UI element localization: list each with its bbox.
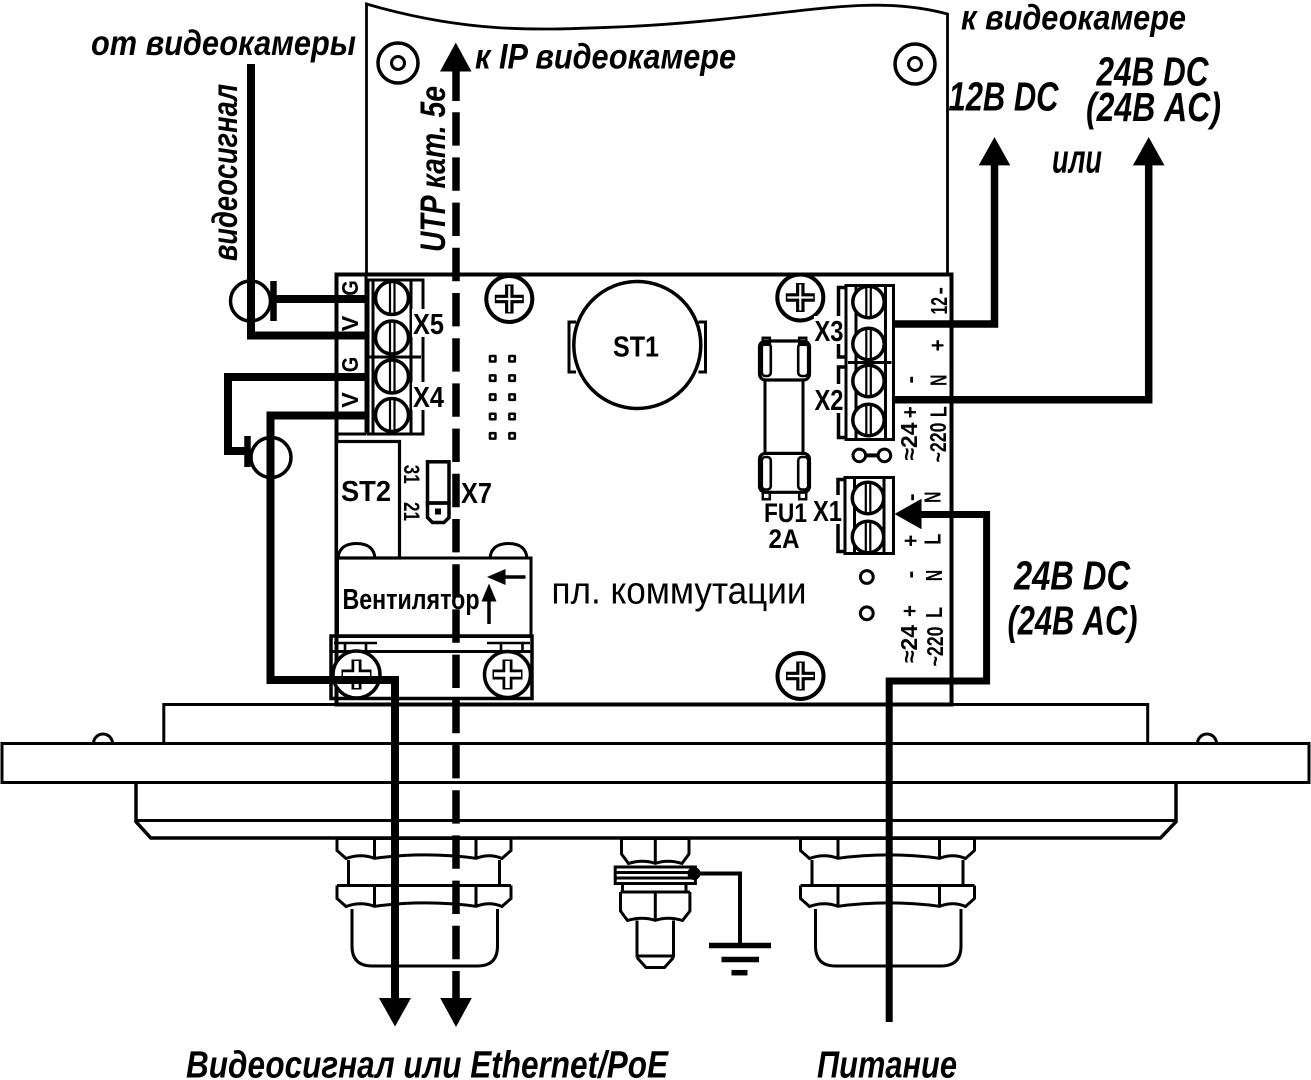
UTP arrow down xyxy=(440,998,472,1027)
ground wire xyxy=(694,874,740,944)
wire to X5 G from J1 body xyxy=(274,295,367,303)
svg-text:X7: X7 xyxy=(461,478,492,510)
svg-text:L: L xyxy=(926,406,952,417)
flange screw bump left xyxy=(94,734,113,744)
svg-text:G: G xyxy=(337,280,363,296)
bracket screw left xyxy=(333,651,380,698)
cable gland right (power cable) xyxy=(801,839,975,967)
label X4 xyxy=(412,382,447,410)
svg-text:L: L xyxy=(920,534,946,545)
svg-text:от видеокамеры: от видеокамеры xyxy=(91,24,356,63)
svg-text:≈24: ≈24 xyxy=(896,625,922,663)
fan tab right xyxy=(490,544,527,559)
label X5 xyxy=(412,309,446,337)
svg-text:N: N xyxy=(926,374,952,386)
cable gland left (video cable) xyxy=(337,839,511,967)
ST1 (thermostat) xyxy=(574,282,701,409)
svg-text:24В DC: 24В DC xyxy=(1013,553,1131,599)
X2 bracket xyxy=(839,367,847,438)
camera mounting plate (top, with break-line top edge) xyxy=(367,4,948,275)
flange screw bump right xyxy=(1198,734,1217,743)
test points xyxy=(860,571,873,584)
svg-text:Питание: Питание xyxy=(817,1045,957,1080)
terminal block X5/X4 xyxy=(368,280,423,434)
airflow arrow horizontal xyxy=(505,575,526,579)
X7 jumper xyxy=(428,462,450,503)
svg-text:12: 12 xyxy=(926,297,952,315)
ground wire dot xyxy=(688,867,701,880)
svg-text:N: N xyxy=(919,492,945,504)
svg-text:N: N xyxy=(921,570,947,582)
ground symbol xyxy=(709,946,771,973)
svg-text:-: - xyxy=(926,287,952,295)
screw bottom-right xyxy=(778,653,824,699)
svg-text:G: G xyxy=(337,357,363,373)
wire from connector J2 down to video down-arrow xyxy=(271,440,396,1002)
power wire from X1 down to gland xyxy=(889,515,986,1023)
screws X5 (2) and X4 (2) xyxy=(376,282,409,432)
label X3 xyxy=(814,316,844,344)
svg-text:12В DC: 12В DC xyxy=(949,74,1060,120)
svg-text:L: L xyxy=(921,607,947,618)
ST2 (thermostat) xyxy=(337,442,400,559)
svg-text:UTP кат. 5е: UTP кат. 5е xyxy=(414,86,453,252)
UTP arrow up xyxy=(440,43,472,72)
svg-text:(24В AC): (24В AC) xyxy=(1008,598,1138,644)
svg-text:-: - xyxy=(897,376,923,384)
svg-text:Видеосигнал или Ethernet/PoE: Видеосигнал или Ethernet/PoE xyxy=(186,1045,669,1080)
right-side terminal labels (rotated) xyxy=(896,287,952,667)
airflow arrow vertical xyxy=(487,600,491,624)
svg-text:31: 31 xyxy=(399,465,424,484)
terminal block X3/X2 xyxy=(846,286,894,440)
screw top-center xyxy=(486,276,532,322)
svg-text:≈24: ≈24 xyxy=(896,422,922,460)
fan tab left xyxy=(338,544,375,559)
fan mounting bracket xyxy=(331,636,532,699)
connector J2 (coax plug) xyxy=(251,438,291,478)
connector J1 (coax plug) xyxy=(231,281,271,321)
label X1 xyxy=(813,495,843,524)
bracket screw right xyxy=(485,652,531,698)
svg-text:21: 21 xyxy=(399,502,424,521)
svg-text:-: - xyxy=(897,571,923,579)
svg-text:(24В AC): (24В AC) xyxy=(1086,84,1221,130)
svg-text:+: + xyxy=(897,605,923,617)
board (пл. коммутации) outline xyxy=(337,275,952,705)
fan box xyxy=(338,558,532,637)
solder pad grid (2 x 5) xyxy=(489,355,516,440)
coax wire 1: video in (vertical through connector J1, to X5 V) xyxy=(251,64,367,336)
FU1 fuse with holder xyxy=(760,338,810,499)
terminal block X1 xyxy=(845,478,894,554)
X3 bracket xyxy=(839,288,847,358)
svg-text:~220: ~220 xyxy=(925,423,951,463)
label X2 xyxy=(814,384,844,413)
svg-text:ST2: ST2 xyxy=(341,476,391,508)
svg-text:или: или xyxy=(1052,138,1102,182)
G/V letters xyxy=(337,280,363,408)
label FU1 2A xyxy=(764,498,807,554)
wire X4 V to connector J2 (upper part) xyxy=(271,416,368,471)
svg-text:V: V xyxy=(337,392,363,408)
X1 bracket xyxy=(838,480,845,552)
12V DC wire + arrow up xyxy=(893,162,995,324)
video cable down arrow head xyxy=(379,998,411,1027)
svg-text:+: + xyxy=(897,406,923,418)
svg-text:Вентилятор: Вентилятор xyxy=(343,584,480,616)
svg-text:X4: X4 xyxy=(413,382,444,414)
plate hole right xyxy=(895,44,935,84)
svg-text:+: + xyxy=(925,339,951,351)
ground bolt (center) xyxy=(615,839,695,968)
svg-text:X1: X1 xyxy=(813,496,842,528)
svg-text:X5: X5 xyxy=(413,309,444,341)
24V wire + arrow up xyxy=(893,162,1149,400)
jumper pads between X2 and X1 xyxy=(853,449,866,462)
top plate (pedestal under board) xyxy=(164,705,1148,744)
lower housing block with bevels xyxy=(136,783,1176,839)
G/V terminal strip xyxy=(337,276,366,434)
svg-text:к IP видеокамере: к IP видеокамере xyxy=(475,38,736,77)
svg-text:к видеокамере: к видеокамере xyxy=(961,0,1186,38)
svg-text:ST1: ST1 xyxy=(613,332,659,364)
wire X4 G to connector J2 body xyxy=(228,377,367,451)
svg-text:X2: X2 xyxy=(815,385,844,417)
svg-text:X3: X3 xyxy=(815,316,844,348)
svg-text:пл. коммутации: пл. коммутации xyxy=(552,571,807,613)
UTP dashed cable xyxy=(452,71,460,1000)
plate hole left xyxy=(378,43,418,83)
svg-text:2A: 2A xyxy=(769,524,800,554)
flange (wide mounting plate) xyxy=(2,744,1309,783)
X7 pin labels 31 / 21 xyxy=(399,465,424,521)
screw top-right xyxy=(777,275,823,321)
svg-text:V: V xyxy=(337,315,363,331)
arrow into X1 xyxy=(895,499,922,530)
svg-text:видеосигнал: видеосигнал xyxy=(206,84,245,261)
svg-text:~220: ~220 xyxy=(922,627,948,667)
